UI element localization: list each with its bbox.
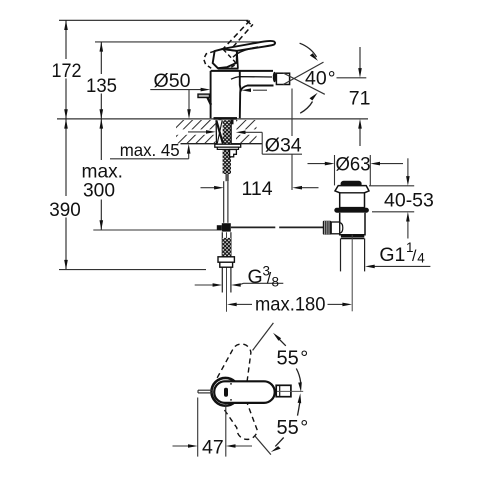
wire: counter bottom line — [181, 143, 263, 145]
55° leader arrows — [271, 333, 302, 452]
hatched counter right block — [236, 120, 257, 144]
spout bottom — [241, 86, 274, 92]
faucet body outline — [198, 68, 290, 118]
svg-text:40-53: 40-53 — [384, 190, 434, 212]
svg-text:G1: G1 — [379, 244, 405, 266]
svg-text:47: 47 — [202, 437, 224, 459]
seal wedge in hole — [217, 120, 223, 143]
wire: max300 bottom reference line — [93, 229, 221, 231]
body cap line + gray shade — [218, 68, 239, 71]
wire: dashed hidden edges in handle — [223, 49, 236, 67]
svg-text:/: / — [412, 248, 417, 265]
dimension 40-53 — [369, 158, 414, 238]
top view handle capsule — [214, 381, 275, 403]
pop-up lower body — [340, 213, 365, 235]
dimension G 3/8 — [195, 283, 284, 287]
svg-text:55°: 55° — [277, 347, 309, 369]
aerator tip — [276, 73, 289, 84]
svg-text:4: 4 — [417, 251, 425, 266]
dimension 71 — [358, 47, 362, 146]
wire: 40° leader to 71 — [337, 77, 367, 79]
svg-text:max.180: max.180 — [255, 294, 326, 316]
body rectangle — [211, 70, 273, 72]
wire: countertop reference line — [57, 118, 368, 120]
faucet base plate — [214, 117, 238, 120]
pop-up cap — [341, 181, 362, 186]
knurled knob — [323, 221, 331, 235]
40° arc arrows — [300, 43, 318, 113]
rod ball joint bulge — [340, 223, 343, 234]
dashed swung handle upper — [217, 344, 251, 381]
wire: dashed raised lever — [222, 21, 253, 54]
dimension 390 — [64, 119, 68, 270]
horizontal pop-up rod — [231, 226, 325, 228]
svg-text:172: 172 — [52, 60, 82, 82]
lever back edge to body — [237, 51, 238, 68]
hatched counter left block — [176, 120, 216, 144]
svg-text:114: 114 — [242, 178, 273, 200]
hole right edge — [230, 120, 232, 144]
top view body circle — [212, 378, 240, 406]
wire: top view centerline — [277, 390, 303, 392]
label Ø34 with leader — [188, 130, 302, 154]
spray outlet left — [198, 94, 210, 97]
pop-up rim flange — [335, 186, 369, 208]
svg-text:G: G — [248, 266, 263, 288]
faucet lever handle — [222, 41, 275, 57]
knurled section on supply pipe — [222, 238, 231, 257]
40° fan lines — [283, 62, 325, 94]
dashed swung handle lower — [225, 404, 258, 440]
55° rays — [253, 323, 274, 351]
dimension 114 — [201, 89, 319, 191]
svg-text:Ø34: Ø34 — [265, 134, 302, 156]
top view spout tip — [276, 385, 291, 396]
dimension max.180 — [227, 303, 352, 307]
wire: dashed rotated handle nose — [204, 51, 215, 68]
aerator blob — [224, 388, 228, 397]
faucet handle nose (pivot block) — [213, 49, 237, 68]
outlet bar top view — [198, 390, 213, 393]
spout inner line — [231, 77, 272, 80]
supply pipe upper — [223, 181, 225, 223]
dimension 172 — [64, 20, 68, 119]
dimension G1 1/4 — [365, 265, 430, 269]
pop-up body bottom steps — [341, 235, 364, 237]
svg-text:8: 8 — [272, 275, 280, 290]
svg-text:390: 390 — [49, 199, 81, 221]
screw dots — [230, 383, 232, 385]
wire: second reference line (135 level, lever tip) — [95, 41, 262, 43]
dimension Ø63 — [308, 155, 404, 185]
threaded shank — [223, 120, 231, 174]
drain tailpipe — [340, 238, 342, 271]
mounting flange nut — [215, 144, 241, 147]
rod connector box — [331, 222, 340, 234]
svg-text:135: 135 — [86, 75, 117, 97]
shank tip rod — [225, 174, 228, 181]
svg-text:55°: 55° — [277, 417, 309, 439]
svg-text:40°: 40° — [305, 68, 336, 90]
svg-text:Ø63: Ø63 — [336, 154, 371, 176]
svg-text:300: 300 — [83, 179, 115, 201]
dimension 135 — [100, 42, 104, 119]
svg-text:71: 71 — [349, 87, 371, 109]
svg-text:max. 45: max. 45 — [120, 140, 180, 160]
pop-up O-ring — [334, 208, 369, 213]
wire: top reference line (172 level) — [59, 19, 249, 21]
dimension 47 — [173, 398, 253, 457]
supply pipe lower — [221, 232, 223, 292]
dimension max300 — [100, 119, 104, 230]
T fitting — [222, 223, 231, 231]
wire: bottom reference line (390 level) — [59, 269, 206, 271]
spout end ellipse — [273, 72, 276, 83]
svg-text:Ø50: Ø50 — [154, 70, 191, 92]
supply nut — [218, 257, 234, 262]
